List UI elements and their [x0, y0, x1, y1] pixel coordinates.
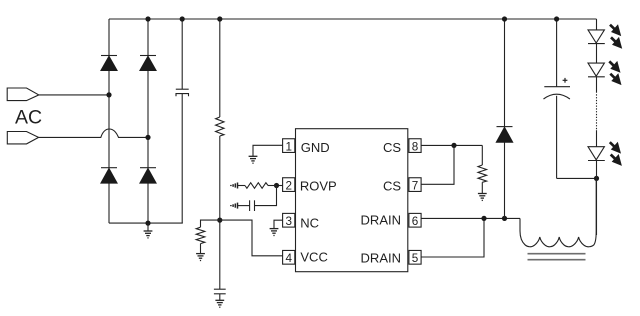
svg-text:CS: CS	[383, 178, 401, 193]
op IC U1 body	[296, 129, 408, 272]
LED LED1	[588, 30, 605, 44]
svg-text:GND: GND	[301, 140, 330, 155]
node AC top to bridge (junction)	[106, 92, 111, 97]
ground pin 1	[249, 156, 258, 163]
connector AC line 2	[7, 132, 38, 144]
svg-text:VCC: VCC	[300, 250, 327, 265]
LED LED1 arrows	[610, 24, 622, 49]
wire diode D5 column	[504, 19, 506, 218]
wire AC top	[39, 94, 109, 96]
wire top rail	[109, 18, 597, 20]
pin 6 box	[409, 213, 421, 227]
pin 4 box	[283, 250, 295, 264]
wire VCC column	[219, 19, 221, 300]
ground below C2	[215, 300, 224, 307]
ground C4 left (small)	[231, 203, 238, 209]
wire bridge bottom rail	[109, 222, 183, 224]
connector AC line 1	[7, 88, 39, 101]
ground pin 3	[270, 229, 279, 236]
wire pin 6 to transformer	[421, 217, 520, 219]
node C1 top rail (junction)	[180, 16, 185, 21]
ground bridge bottom	[144, 223, 153, 238]
svg-text:5: 5	[412, 252, 419, 265]
node D5 top rail (junction)	[502, 16, 507, 21]
wire pin 1 to ground	[253, 145, 283, 156]
svg-text:6: 6	[412, 215, 419, 228]
wire C3 bottom to LED string	[557, 177, 597, 179]
transformer L1 core	[528, 254, 586, 260]
pin 1 box	[283, 139, 295, 153]
node drain pin5 (junction)	[481, 216, 486, 221]
wire VCC to pin 4	[220, 220, 283, 256]
capacitor C3 column wire	[556, 19, 558, 178]
wire R2 to ground	[200, 244, 202, 254]
capacitor C1	[176, 89, 189, 96]
diode D2	[140, 56, 156, 71]
node D2 top rail (junction)	[145, 16, 150, 21]
wire LED string	[596, 19, 598, 235]
svg-text:3: 3	[285, 215, 292, 228]
LED LED3 arrows	[610, 142, 622, 166]
svg-text:ROVP: ROVP	[300, 179, 337, 194]
node VCC junction	[217, 218, 222, 223]
LED LED3	[588, 147, 605, 161]
resistor R2	[196, 227, 205, 243]
wire pin 2 stub	[277, 185, 283, 187]
wire pin 8 to R3	[421, 144, 482, 146]
svg-text:DRAIN: DRAIN	[361, 250, 401, 265]
svg-text:1: 1	[285, 140, 292, 153]
diode D3	[101, 168, 117, 184]
node C3 top rail (junction)	[554, 16, 559, 21]
node VCC column top rail (junction)	[217, 16, 222, 21]
capacitor C3 electrolytic	[544, 87, 571, 99]
capacitor C4 (ROVP)	[238, 200, 255, 211]
node drain diode (junction)	[502, 216, 507, 221]
ground R4 left (small)	[231, 183, 238, 189]
LED LED2 arrows	[609, 61, 621, 85]
resistor R3	[478, 145, 487, 193]
resistor R1	[216, 117, 224, 136]
wire pin 7 tie	[421, 145, 454, 184]
ground below R3	[478, 194, 487, 201]
capacitor C1 column wire	[181, 19, 183, 223]
diode D5	[496, 127, 513, 143]
wire bridge left column	[108, 19, 110, 223]
node bridge bottom (junction)	[145, 221, 150, 226]
svg-text:AC: AC	[15, 107, 42, 129]
svg-text:DRAIN: DRAIN	[361, 213, 401, 228]
node AC bottom to bridge (junction)	[145, 135, 150, 140]
wire bridge right column	[147, 19, 149, 223]
ground below R2	[196, 254, 205, 261]
svg-text:CS: CS	[383, 140, 401, 155]
svg-text:2: 2	[285, 179, 292, 192]
svg-text:8: 8	[412, 140, 419, 153]
pin 5 box	[409, 250, 421, 264]
svg-text:4: 4	[285, 252, 292, 265]
node ROVP junction	[274, 183, 279, 188]
wire AC bottom with hop over left bridge column	[39, 129, 148, 137]
resistor R4 (ROVP)	[238, 183, 277, 189]
pin 8 box	[409, 139, 421, 153]
wire ROVP down to C4	[255, 186, 277, 206]
transformer L1 winding	[520, 178, 596, 246]
label C3 plus	[563, 78, 568, 83]
node pin7/8 tie (junction)	[451, 143, 456, 148]
diode D1	[101, 56, 117, 71]
wire pin 3 to ground	[274, 220, 283, 228]
pin 3 box	[283, 213, 295, 227]
capacitor C2	[214, 289, 226, 294]
svg-text:NC: NC	[300, 216, 319, 231]
wire LED dotted continuation	[596, 92, 598, 131]
svg-text:7: 7	[412, 179, 419, 192]
pin 7 box	[409, 178, 421, 192]
wire R2 branch	[201, 220, 220, 227]
node LED bottom (junction)	[594, 176, 599, 181]
wire pin 5 up to drain net	[421, 218, 484, 257]
diode D4	[140, 168, 156, 184]
LED LED2	[588, 63, 605, 77]
pin 2 box	[283, 178, 295, 192]
